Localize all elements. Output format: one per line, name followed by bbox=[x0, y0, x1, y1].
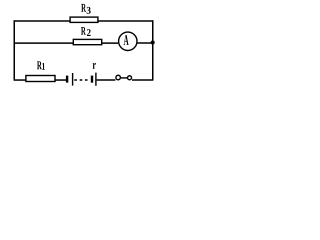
battery cell 2 long thin plate bbox=[95, 73, 97, 86]
battery cell 2 short thick plate bbox=[91, 76, 93, 83]
resistor R1 label bbox=[37, 61, 42, 69]
resistor R3 box bbox=[70, 17, 98, 22]
battery cell 1 short thick plate bbox=[66, 76, 68, 83]
resistor R1 box bbox=[26, 76, 55, 82]
ammeter A circle bbox=[119, 32, 137, 50]
switch right contact circle bbox=[128, 76, 132, 80]
wire bottom battery to switch bbox=[97, 79, 116, 81]
wire right vertical bbox=[152, 20, 154, 80]
switch left contact circle bbox=[116, 75, 121, 80]
resistor R2 box bbox=[73, 39, 101, 44]
battery dashed link dash 1 bbox=[74, 79, 77, 81]
wire top horizontal right segment bbox=[98, 20, 153, 22]
junction node dot bbox=[151, 41, 155, 45]
battery cell 1 long thin plate bbox=[72, 73, 74, 86]
wire left vertical bbox=[13, 20, 15, 80]
wire top horizontal left segment bbox=[14, 20, 70, 22]
wire middle horizontal left segment bbox=[14, 42, 73, 44]
resistor R3 label bbox=[81, 4, 86, 12]
battery dashed link dash 2 bbox=[80, 79, 83, 81]
ammeter A letter bbox=[124, 35, 129, 45]
wire ammeter to junction bbox=[138, 42, 153, 44]
wire middle horizontal segment R2 to ammeter bbox=[102, 42, 118, 44]
switch lever bbox=[121, 77, 127, 79]
battery dashed link dash 3 bbox=[85, 79, 88, 81]
wire bottom switch to right vertical bbox=[132, 79, 153, 81]
wire bottom left segment bbox=[14, 79, 26, 81]
wire bottom R1 to battery bbox=[55, 79, 66, 81]
battery internal resistance r label bbox=[93, 63, 96, 69]
resistor R2 label bbox=[81, 27, 86, 35]
